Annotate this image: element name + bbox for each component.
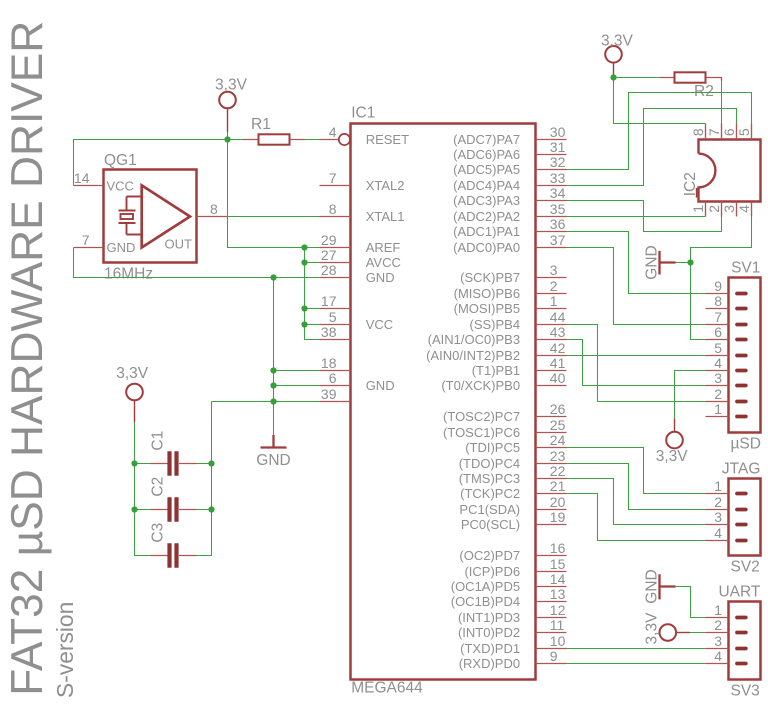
- IC2 pin 1 (bottom): [690, 202, 706, 217]
- svg-text:5: 5: [329, 309, 337, 325]
- wire PA4 to IC2 pin 6: [567, 109, 737, 186]
- svg-text:3,3V: 3,3V: [116, 365, 149, 382]
- IC1 pin 18 supply (left row 15): [320, 355, 351, 371]
- svg-text:1: 1: [714, 478, 722, 494]
- wire VCC rail col -3: [305, 248, 320, 340]
- IC1 pin 3 (SCK)PB7 (right row 9): [460, 262, 566, 285]
- IC1 pin 20 PC1(SDA) (right row 24): [459, 494, 566, 517]
- JTAG pin 1: [706, 478, 746, 494]
- wire PA1 to SV1 pin 9: [567, 232, 706, 294]
- svg-text:25: 25: [550, 417, 566, 433]
- svg-text:(OC1B)PD4: (OC1B)PD4: [451, 594, 520, 609]
- IC1 pin 14 (OC1A)PD5 (right row 29): [451, 571, 567, 594]
- IC1 pin 12 (INT1)PD3 (right row 31): [458, 602, 567, 625]
- svg-text:3,3V: 3,3V: [601, 32, 634, 49]
- svg-text:19: 19: [550, 509, 566, 525]
- svg-text:1: 1: [714, 602, 722, 618]
- IC1 pin 34 (ADC3)PA3 (right row 4): [453, 185, 566, 208]
- junction AREF tap: [301, 244, 307, 250]
- svg-text:21: 21: [550, 478, 566, 494]
- svg-text:22: 22: [550, 463, 566, 479]
- IC2 pin 5 (top): [736, 124, 752, 140]
- svg-text:GND: GND: [256, 452, 290, 469]
- wire PA3 to IC2 pin 2: [567, 201, 722, 232]
- IC1 pin 6 GND (left row 16): [320, 370, 395, 393]
- svg-text:17: 17: [321, 293, 337, 309]
- IC1 pin 7 XTAL2 (left row 3): [320, 170, 405, 193]
- junction 3.3V / R1 / QG1.VCC: [224, 136, 230, 142]
- supply +3.3V (capacitor bank): [116, 365, 149, 422]
- svg-text:14: 14: [74, 170, 90, 186]
- SV1 pin 8: [706, 293, 746, 309]
- svg-text:18: 18: [321, 355, 337, 371]
- svg-text:MEGA644: MEGA644: [351, 680, 423, 697]
- wire net +3.3V: QG1.VCC / R1 / AREF/AVCC/VCC rail: [74, 140, 243, 186]
- IC1 pin 27 AVCC (left row 8): [320, 247, 401, 270]
- svg-text:PC1(SDA): PC1(SDA): [459, 502, 520, 517]
- svg-text:(TOSC1)PC6: (TOSC1)PC6: [443, 425, 520, 440]
- IC1 pin 9 (RXD)PD0 (right row 34): [459, 648, 567, 671]
- svg-text:GND: GND: [366, 378, 395, 393]
- svg-text:28: 28: [321, 262, 337, 278]
- svg-text:7: 7: [82, 232, 90, 248]
- UART pin 1: [706, 602, 746, 618]
- svg-text:5: 5: [714, 340, 722, 356]
- svg-text:23: 23: [550, 448, 566, 464]
- IC1 pin 26 (TOSC2)PC7 (right row 18): [443, 401, 566, 424]
- ground GND (UART area, rotated): [644, 569, 676, 603]
- IC1 pin 10 (TXD)PD1 (right row 33): [460, 633, 566, 656]
- junction VCC pin5 tap: [301, 321, 307, 327]
- supply +3.3V (top left, to R1/AREF): [215, 77, 248, 132]
- QG1 pin 14 VCC: [74, 170, 104, 186]
- svg-text:R2: R2: [694, 83, 714, 100]
- svg-text:(RXD)PD0: (RXD)PD0: [459, 656, 520, 671]
- svg-text:8: 8: [210, 201, 218, 217]
- IC1 pin 11 (INT0)PD2 (right row 32): [458, 617, 567, 640]
- connector JTAG SV2 box: [722, 460, 761, 575]
- svg-text:XTAL1: XTAL1: [366, 209, 405, 224]
- IC1 pin 19 PC0(SCL) (right row 25): [461, 509, 567, 532]
- svg-text:(TDO)PC4: (TDO)PC4: [459, 456, 520, 471]
- wire PA0 to SV1 pin 7: [567, 248, 706, 325]
- capacitor C3: [150, 523, 197, 568]
- svg-text:26: 26: [550, 401, 566, 417]
- svg-text:3: 3: [714, 370, 722, 386]
- IC1 pin 35 (ADC2)PA2 (right row 5): [453, 201, 566, 224]
- wire PC4 to SV2 pin 2: [567, 464, 706, 510]
- svg-text:11: 11: [550, 617, 565, 633]
- resistor R2: [660, 72, 722, 100]
- oscillator QG1 16MHz: [104, 152, 197, 282]
- svg-text:2: 2: [550, 278, 558, 294]
- supply +3.3V (UART SV3, rotated): [644, 612, 691, 645]
- svg-text:µSD: µSD: [731, 435, 761, 452]
- IC1 pin 39 supply (left row 17): [320, 386, 351, 402]
- svg-text:(T0/XCK)PB0: (T0/XCK)PB0: [441, 378, 520, 393]
- svg-text:29: 29: [321, 232, 337, 248]
- svg-text:8: 8: [714, 293, 722, 309]
- svg-text:1: 1: [550, 293, 558, 309]
- svg-text:(ADC3)PA3: (ADC3)PA3: [453, 193, 520, 208]
- svg-text:44: 44: [550, 309, 566, 325]
- IC1 pin 31 (ADC6)PA6 (right row 1): [453, 139, 566, 162]
- op-amp/IC IC2: [682, 140, 761, 202]
- wire PC3 to SV2 pin 3: [567, 479, 706, 525]
- svg-text:34: 34: [550, 185, 566, 201]
- svg-text:27: 27: [321, 247, 337, 263]
- svg-text:(ADC1)PA1: (ADC1)PA1: [453, 224, 520, 239]
- IC1 pin 28 GND (left row 9): [320, 262, 395, 285]
- svg-text:(INT1)PD3: (INT1)PD3: [458, 610, 520, 625]
- svg-text:XTAL2: XTAL2: [366, 178, 405, 193]
- IC2 pin 6 (top): [721, 124, 737, 140]
- svg-text:20: 20: [550, 494, 566, 510]
- svg-text:32: 32: [550, 154, 566, 170]
- UART pin 2: [706, 617, 746, 633]
- SV1 pin 6: [706, 324, 746, 340]
- wire 3.3V junction to R2 and IC2 pin 8: [614, 75, 660, 78]
- svg-text:UART: UART: [718, 583, 760, 600]
- connector SV1 µSD box: [729, 259, 761, 452]
- junction GND pin28 tap: [270, 274, 276, 280]
- IC1 pin 25 (TOSC1)PC6 (right row 19): [443, 417, 566, 440]
- svg-text:(ADC0)PA0: (ADC0)PA0: [453, 240, 520, 255]
- IC1 pin 13 (OC1B)PD4 (right row 30): [451, 586, 567, 609]
- UART pin 4: [706, 648, 746, 664]
- svg-text:3,3V: 3,3V: [656, 448, 689, 465]
- IC1 pin 17 supply (left row 11): [320, 293, 351, 309]
- svg-text:(ADC4)PA4: (ADC4)PA4: [453, 178, 520, 193]
- svg-text:4: 4: [736, 205, 752, 213]
- IC1 pin 15 (ICP)PD6 (right row 28): [464, 556, 566, 579]
- svg-text:7: 7: [714, 309, 722, 325]
- svg-text:(TMS)PC3: (TMS)PC3: [459, 471, 520, 486]
- JTAG pin 3: [706, 509, 746, 525]
- IC1 pin 5 VCC (left row 12): [320, 309, 394, 332]
- svg-text:(OC1A)PD5: (OC1A)PD5: [451, 579, 520, 594]
- IC1 pin 32 (ADC5)PA5 (right row 2): [453, 154, 566, 177]
- svg-text:(TXD)PD1: (TXD)PD1: [460, 641, 520, 656]
- svg-text:(INT0)PD2: (INT0)PD2: [458, 625, 520, 640]
- wire GND to IC2 pin 4 and SV1 pin 6: [676, 217, 752, 263]
- resistor R1: [243, 116, 305, 145]
- supply +3.3V (microSD SV1): [656, 418, 689, 465]
- wire PD0/RXD to SV3 pin 4: [567, 663, 706, 665]
- wire 3.3V to SV1 pin 4: [675, 371, 706, 419]
- svg-text:2: 2: [714, 386, 722, 402]
- svg-text:VCC: VCC: [366, 317, 393, 332]
- svg-text:(ADC5)PA5: (ADC5)PA5: [453, 162, 520, 177]
- svg-text:7: 7: [329, 170, 337, 186]
- svg-text:13: 13: [550, 586, 566, 602]
- IC1 pin 37 (ADC0)PA0 (right row 7): [453, 232, 566, 255]
- wire PC5 to SV2 pin 1: [567, 448, 706, 494]
- svg-text:4: 4: [329, 124, 337, 140]
- svg-text:4: 4: [714, 355, 722, 371]
- junction AVCC tap: [301, 259, 307, 265]
- IC1 pin 36 (ADC1)PA1 (right row 6): [453, 216, 566, 239]
- IC1 pin 4 RESET (left row 0): [320, 124, 410, 147]
- junction GND pin18 tap: [270, 367, 276, 373]
- IC1 pin 33 (ADC4)PA4 (right row 3): [453, 170, 566, 193]
- svg-text:GND: GND: [644, 569, 661, 603]
- svg-text:VCC: VCC: [107, 178, 134, 193]
- junction C2 left: [131, 506, 137, 512]
- svg-text:GND: GND: [644, 245, 661, 279]
- svg-text:8: 8: [329, 201, 337, 217]
- svg-text:39: 39: [321, 386, 337, 402]
- svg-text:4: 4: [714, 525, 722, 541]
- svg-text:GND: GND: [366, 270, 395, 285]
- svg-text:30: 30: [550, 124, 566, 140]
- SV1 pin 3: [706, 370, 746, 386]
- IC1 pin 41 (T1)PB1 (right row 15): [472, 355, 567, 378]
- svg-text:35: 35: [550, 201, 566, 217]
- IC1 pin 21 (TCK)PC2 (right row 23): [460, 478, 566, 501]
- junction VCC pin17 tap: [301, 305, 307, 311]
- svg-text:9: 9: [550, 648, 558, 664]
- svg-text:(ADC6)PA6: (ADC6)PA6: [453, 147, 520, 162]
- svg-text:3: 3: [550, 262, 558, 278]
- wire R1 to RESET: [305, 139, 320, 141]
- wire 3.3V to SV3 pin 2: [690, 632, 706, 634]
- wire PB4 to SV1 pin 2: [567, 325, 706, 402]
- svg-text:SV3: SV3: [731, 682, 760, 699]
- svg-text:14: 14: [550, 571, 566, 587]
- svg-text:R1: R1: [251, 116, 271, 133]
- svg-text:16MHz: 16MHz: [104, 265, 153, 282]
- svg-text:15: 15: [550, 556, 566, 572]
- IC2 pin 7 (top): [706, 124, 722, 140]
- svg-text:3,3V: 3,3V: [215, 77, 248, 94]
- capacitor C2: [150, 477, 197, 522]
- IC1 pin 23 (TDO)PC4 (right row 21): [459, 448, 567, 471]
- IC1 pin 1 (MOSI)PB5 (right row 11): [454, 293, 567, 316]
- svg-text:(SCK)PB7: (SCK)PB7: [460, 270, 520, 285]
- svg-text:10: 10: [550, 633, 566, 649]
- wire PB3 to SV1 pin 3: [567, 340, 706, 386]
- wire PB2 to SV1 pin 5: [567, 355, 706, 357]
- svg-text:(SS)PB4: (SS)PB4: [470, 317, 521, 332]
- junction C1 right: [208, 460, 214, 466]
- svg-text:AVCC: AVCC: [366, 255, 401, 270]
- IC2 pin 2 (bottom): [706, 202, 722, 217]
- wire GND to SV3 pin 1: [676, 587, 706, 618]
- svg-text:(OC2)PD7: (OC2)PD7: [459, 548, 520, 563]
- svg-text:RESET: RESET: [366, 132, 409, 147]
- svg-text:(ADC2)PA2: (ADC2)PA2: [453, 209, 520, 224]
- ground GND (IC2 area, rotated): [644, 245, 676, 279]
- IC1 pin 38 supply (left row 13): [320, 324, 351, 340]
- svg-text:(MOSI)PB5: (MOSI)PB5: [454, 301, 520, 316]
- wire QG1.OUT to XTAL1: [228, 216, 320, 218]
- IC1 pin 22 (TMS)PC3 (right row 22): [459, 463, 567, 486]
- svg-text:5: 5: [736, 128, 752, 136]
- svg-text:(TDI)PC5: (TDI)PC5: [465, 440, 520, 455]
- JTAG pin 2: [706, 494, 746, 510]
- svg-text:SV2: SV2: [731, 558, 760, 575]
- svg-text:(AIN0/INT2)PB2: (AIN0/INT2)PB2: [426, 348, 520, 363]
- svg-text:6: 6: [721, 128, 737, 136]
- svg-text:2: 2: [706, 205, 722, 213]
- svg-text:12: 12: [550, 602, 566, 618]
- svg-text:SV1: SV1: [731, 259, 760, 276]
- QG1 pin 7 GND: [74, 232, 104, 248]
- IC1 pin 29 AREF (left row 7): [320, 232, 401, 255]
- svg-text:2: 2: [714, 494, 722, 510]
- svg-text:42: 42: [550, 340, 566, 356]
- svg-text:GND: GND: [107, 240, 136, 255]
- svg-text:(AIN1/OC0)PB3: (AIN1/OC0)PB3: [428, 332, 520, 347]
- IC1 pin 2 (MISO)PB6 (right row 10): [454, 278, 567, 301]
- svg-text:IC1: IC1: [351, 104, 375, 121]
- wire PA5 to IC2 pin 5: [567, 93, 752, 170]
- junction C2 right: [208, 506, 214, 512]
- svg-text:OUT: OUT: [165, 237, 193, 252]
- svg-text:40: 40: [550, 370, 566, 386]
- IC1 pin 44 (SS)PB4 (right row 12): [470, 309, 567, 332]
- svg-text:AREF: AREF: [366, 240, 401, 255]
- svg-text:C2: C2: [150, 477, 167, 497]
- IC2 pin 3 (bottom): [721, 202, 737, 217]
- capacitor C1: [150, 431, 197, 476]
- ground GND (below IC1): [256, 435, 290, 469]
- wire cap bank left column (3.3V): [135, 422, 151, 555]
- junction IC2 GND node: [687, 259, 693, 265]
- supply +3.3V (top right, to R2/IC2): [601, 32, 634, 74]
- IC1 pin 43 (AIN1/OC0)PB3 (right row 13): [428, 324, 567, 347]
- svg-text:(ICP)PD6: (ICP)PD6: [464, 564, 520, 579]
- IC2 pin 4 (bottom): [736, 202, 752, 217]
- svg-text:43: 43: [550, 324, 566, 340]
- wire PA2 to IC2 pin 1: [567, 216, 706, 218]
- svg-text:6: 6: [714, 324, 722, 340]
- svg-text:3: 3: [714, 509, 722, 525]
- svg-text:41: 41: [550, 355, 566, 371]
- wire net GND: QG1.GND / IC1 GND pins / GND symbol / caps: [74, 248, 320, 278]
- SV1 pin 4: [706, 355, 746, 371]
- svg-text:2: 2: [714, 617, 722, 633]
- IC1 pin 42 (AIN0/INT2)PB2 (right row 14): [426, 340, 566, 363]
- svg-text:33: 33: [550, 170, 566, 186]
- svg-text:6: 6: [329, 370, 337, 386]
- SV1 pin 1: [706, 401, 746, 417]
- connector UART SV3 box: [718, 583, 760, 699]
- svg-text:FAT32 µSD HARDWARE DRIVER: FAT32 µSD HARDWARE DRIVER: [2, 21, 52, 696]
- svg-text:JTAG: JTAG: [722, 460, 760, 477]
- svg-text:(MISO)PB6: (MISO)PB6: [454, 286, 520, 301]
- svg-text:36: 36: [550, 216, 566, 232]
- UART pin 3: [706, 633, 746, 649]
- IC1 pin 30 (ADC7)PA7 (right row 0): [453, 124, 566, 147]
- SV1 pin 9: [706, 278, 746, 294]
- IC1 MEGA644 box: [351, 124, 536, 680]
- svg-text:C3: C3: [150, 523, 167, 543]
- JTAG pin 4: [706, 525, 746, 541]
- svg-text:(TOSC2)PC7: (TOSC2)PC7: [443, 409, 520, 424]
- svg-text:(ADC7)PA7: (ADC7)PA7: [453, 132, 520, 147]
- svg-text:4: 4: [714, 648, 722, 664]
- svg-text:C1: C1: [150, 431, 167, 451]
- junction GND pin6 tap: [270, 382, 276, 388]
- IC1 pin 40 (T0/XCK)PB0 (right row 16): [441, 370, 566, 393]
- wire cap bank right column: [197, 402, 212, 556]
- svg-text:31: 31: [550, 139, 566, 155]
- QG1 pin 8 OUT: [197, 201, 228, 217]
- svg-text:38: 38: [321, 324, 337, 340]
- svg-text:1: 1: [690, 205, 706, 213]
- wire PC2 to SV2 pin 4: [567, 494, 706, 541]
- svg-text:3,3V: 3,3V: [644, 612, 661, 645]
- SV1 pin 7: [706, 309, 746, 325]
- IC1 pin 8 XTAL1 (left row 5): [320, 201, 405, 224]
- IC2 pin 8 (top): [690, 124, 706, 140]
- svg-text:24: 24: [550, 432, 566, 448]
- svg-text:QG1: QG1: [104, 152, 137, 169]
- svg-text:(T1)PB1: (T1)PB1: [472, 363, 520, 378]
- svg-text:PC0(SCL): PC0(SCL): [461, 517, 520, 532]
- svg-text:8: 8: [690, 128, 706, 136]
- svg-text:1: 1: [714, 401, 722, 417]
- svg-text:S-version: S-version: [52, 602, 78, 698]
- svg-text:37: 37: [550, 232, 566, 248]
- junction GND pin39 tap: [270, 398, 276, 404]
- junction 3.3V / R2: [610, 74, 616, 80]
- wire R2 to IC2 pin 7: [721, 81, 723, 124]
- svg-text:9: 9: [714, 278, 722, 294]
- svg-text:3: 3: [714, 633, 722, 649]
- junction C1 left: [131, 460, 137, 466]
- svg-text:16: 16: [550, 540, 566, 556]
- SV1 pin 2: [706, 386, 746, 402]
- svg-text:3: 3: [721, 205, 737, 213]
- IC1 pin 16 (OC2)PD7 (right row 27): [459, 540, 566, 563]
- wire PD1/TXD to SV3 pin 3: [567, 648, 706, 650]
- wire 3.3V vertical to AREF row: [228, 140, 320, 248]
- svg-text:(TCK)PC2: (TCK)PC2: [460, 486, 520, 501]
- IC1 pin 24 (TDI)PC5 (right row 20): [465, 432, 566, 455]
- SV1 pin 5: [706, 340, 746, 356]
- svg-text:7: 7: [706, 128, 722, 136]
